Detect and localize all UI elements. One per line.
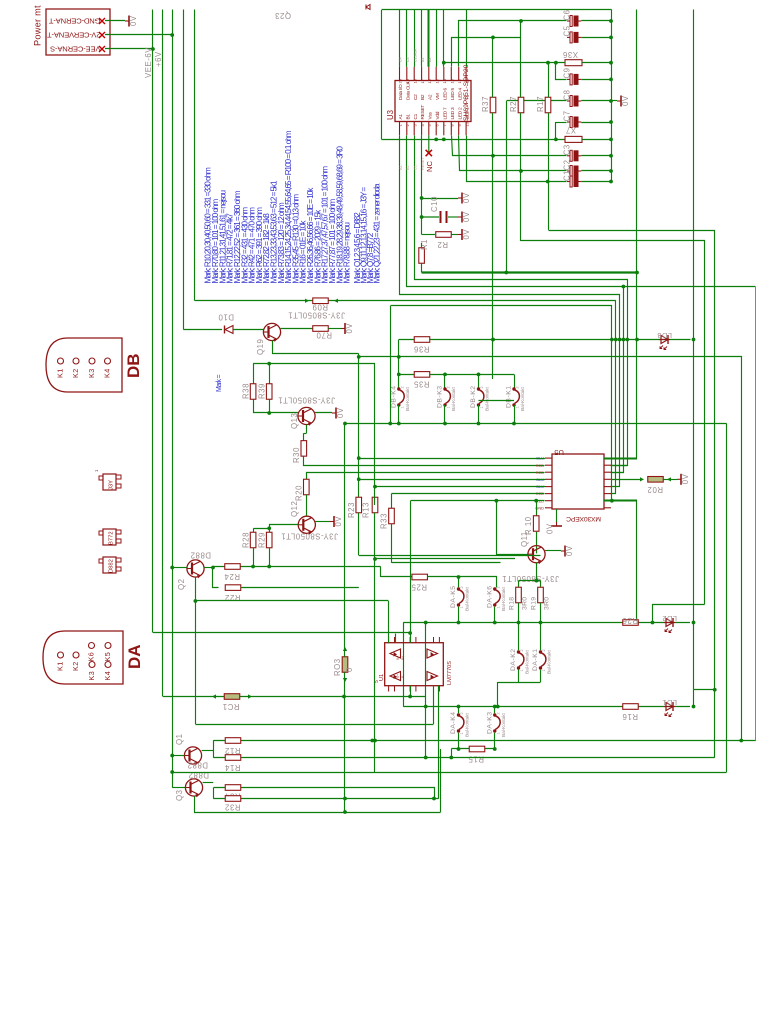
svg-text:1: 1 bbox=[447, 406, 451, 408]
svg-text:Q3: Q3 bbox=[175, 789, 184, 801]
pin DA K5 bbox=[103, 643, 112, 662]
resistor RO3 bbox=[333, 647, 354, 682]
svg-text:2: 2 bbox=[520, 649, 524, 651]
wire X7 bus bbox=[382, 138, 566, 142]
capacitor C9 bbox=[563, 67, 582, 84]
wire bbox=[536, 501, 538, 517]
wire bbox=[395, 634, 397, 643]
svg-text:Q19: Q19 bbox=[256, 339, 265, 355]
svg-text:R23: R23 bbox=[347, 502, 356, 518]
resistor R24 bbox=[224, 564, 240, 581]
wire R32 net bbox=[213, 797, 438, 801]
svg-text:Mark: R78,88 = nejsou: Mark: R78,88 = nejsou bbox=[343, 222, 352, 284]
svg-text:2: 2 bbox=[542, 649, 546, 651]
wire bbox=[478, 405, 480, 424]
wire bbox=[545, 550, 561, 552]
wire R24 line bbox=[213, 565, 381, 569]
switch DA-K1 bbox=[532, 648, 553, 674]
transistor Q11 bbox=[502, 531, 559, 583]
svg-text:DA-K5: DA-K5 bbox=[450, 585, 457, 608]
resistor R15 bbox=[468, 746, 485, 763]
wire bbox=[183, 10, 185, 330]
wire bbox=[421, 10, 423, 67]
wire bbox=[399, 10, 401, 67]
wire bbox=[636, 10, 638, 459]
svg-text:DA-K6: DA-K6 bbox=[486, 585, 493, 608]
wire bbox=[410, 686, 412, 697]
switch DB-K2 bbox=[470, 385, 491, 411]
wire bbox=[304, 425, 307, 441]
wire bbox=[410, 633, 412, 643]
svg-text:K2: K2 bbox=[71, 661, 80, 671]
svg-text:2: 2 bbox=[447, 386, 451, 388]
svg-text:LM7770S: LM7770S bbox=[447, 661, 453, 685]
svg-text:R26: R26 bbox=[622, 616, 638, 625]
wire bbox=[172, 567, 187, 569]
wire bbox=[519, 603, 541, 623]
wire Q19 emitter bbox=[273, 341, 359, 354]
wire bbox=[459, 733, 495, 749]
transistor pkg D882 bbox=[99, 557, 121, 573]
svg-text:RED: RED bbox=[536, 463, 544, 468]
wire bbox=[433, 686, 435, 724]
wire bbox=[548, 63, 550, 230]
svg-text:R39: R39 bbox=[258, 383, 267, 399]
node RESET bbox=[421, 157, 425, 170]
wire bbox=[440, 749, 442, 812]
svg-text:Bal-Kontakt: Bal-Kontakt bbox=[451, 387, 457, 411]
svg-text:VM: VM bbox=[435, 93, 441, 100]
resistor R1 bbox=[419, 239, 429, 263]
wire bbox=[444, 405, 446, 424]
resistor R30 bbox=[292, 441, 307, 463]
wire bbox=[315, 521, 330, 523]
switch DB-K3 bbox=[437, 385, 458, 411]
capacitor C5 bbox=[563, 25, 582, 43]
wire bbox=[436, 10, 438, 67]
svg-text:Q13: Q13 bbox=[290, 413, 299, 429]
wire bbox=[519, 623, 541, 651]
transistor pkg B772 bbox=[99, 529, 121, 545]
wire bbox=[202, 750, 214, 752]
note Mark table bbox=[204, 130, 382, 283]
resistor R23 bbox=[347, 497, 362, 518]
svg-text:R35: R35 bbox=[413, 380, 429, 389]
svg-text:0: 0 bbox=[345, 667, 354, 672]
svg-text:A2: A2 bbox=[427, 94, 433, 100]
wire bbox=[424, 623, 428, 758]
wire bbox=[611, 465, 627, 467]
svg-text:13: 13 bbox=[450, 78, 455, 83]
svg-text:Bal-Kontakt: Bal-Kontakt bbox=[520, 387, 526, 411]
resistor R12 bbox=[225, 738, 241, 755]
svg-text:R09: R09 bbox=[312, 303, 328, 312]
svg-text:Bal-Kontakt: Bal-Kontakt bbox=[405, 387, 411, 411]
svg-text:R70: R70 bbox=[316, 331, 332, 340]
wire bbox=[344, 424, 346, 813]
resistor R22 bbox=[225, 585, 241, 602]
wire bbox=[556, 63, 567, 80]
svg-text:U5: U5 bbox=[554, 448, 564, 457]
svg-text:3R0: 3R0 bbox=[544, 597, 551, 610]
wire bbox=[411, 499, 545, 503]
wire bbox=[415, 136, 628, 466]
transistor Q2 bbox=[177, 551, 211, 591]
capacitor C10 bbox=[422, 196, 458, 223]
wire bbox=[467, 136, 567, 184]
svg-text:R24: R24 bbox=[224, 572, 240, 581]
pin GND-CERNA-T bbox=[99, 18, 105, 24]
wire bbox=[604, 501, 639, 625]
svg-text:17: 17 bbox=[420, 78, 425, 83]
node C10A3A bbox=[413, 48, 417, 62]
svg-text:2: 2 bbox=[496, 712, 500, 714]
wire bbox=[392, 493, 545, 495]
wire bbox=[403, 623, 405, 707]
ground 0V bbox=[546, 509, 563, 534]
wire bbox=[459, 607, 495, 623]
svg-text:C2: C2 bbox=[413, 94, 419, 100]
pin DA K6 bbox=[87, 643, 96, 662]
svg-text:1: 1 bbox=[516, 406, 520, 408]
svg-text:J3Y-S8050LT1: J3Y-S8050LT1 bbox=[502, 574, 559, 583]
svg-text:1: 1 bbox=[400, 406, 404, 408]
wire bbox=[374, 513, 376, 772]
svg-text:1: 1 bbox=[496, 606, 500, 608]
svg-text:LED 6: LED 6 bbox=[442, 88, 448, 100]
LED LD3 bbox=[657, 331, 672, 350]
svg-text:R16: R16 bbox=[622, 712, 638, 721]
connector X36 bbox=[562, 50, 582, 66]
capacitor C8 bbox=[563, 89, 582, 106]
pin DB K4 bbox=[103, 358, 112, 378]
transistor Q19 bbox=[256, 311, 345, 356]
svg-text:LED 1: LED 1 bbox=[465, 107, 471, 119]
node A3 bbox=[428, 58, 432, 62]
wire bbox=[452, 36, 521, 67]
svg-text:V+: V+ bbox=[396, 656, 400, 660]
svg-text:Vdd: Vdd bbox=[435, 111, 441, 119]
switch DB-K4 bbox=[390, 385, 411, 411]
resistor R25 bbox=[411, 574, 428, 591]
transistor Q1 bbox=[175, 733, 208, 769]
svg-text:DB-K4: DB-K4 bbox=[390, 385, 397, 408]
svg-text:X7: X7 bbox=[565, 126, 576, 135]
svg-text:DB-K1: DB-K1 bbox=[506, 385, 513, 408]
svg-text:0V: 0V bbox=[681, 473, 690, 484]
wire bbox=[315, 412, 332, 414]
svg-text:K6: K6 bbox=[87, 652, 96, 662]
connector X7 bbox=[565, 126, 582, 143]
wire R34 net bbox=[214, 788, 436, 801]
resistor R70 bbox=[313, 326, 332, 340]
svg-text:LED 7: LED 7 bbox=[442, 107, 448, 119]
svg-text:LED 4: LED 4 bbox=[457, 88, 463, 100]
svg-text:2: 2 bbox=[460, 586, 464, 588]
pin 2V-CERVENA-T bbox=[99, 32, 105, 38]
svg-text:2: 2 bbox=[460, 712, 464, 714]
pin NC bbox=[425, 135, 434, 172]
svg-text:C6: C6 bbox=[563, 9, 572, 20]
svg-text:R18: R18 bbox=[509, 597, 516, 610]
wire bbox=[491, 37, 495, 379]
svg-text:T1: T1 bbox=[465, 94, 471, 100]
svg-text:1: 1 bbox=[496, 732, 500, 734]
svg-text:K3: K3 bbox=[87, 368, 96, 378]
svg-text:Q23: Q23 bbox=[275, 11, 291, 20]
net VEE-6V bbox=[144, 10, 153, 633]
wire bbox=[755, 287, 757, 741]
svg-text:Bal-Kontakt: Bal-Kontakt bbox=[501, 713, 507, 737]
resistor R38 bbox=[242, 383, 256, 399]
svg-text:R38: R38 bbox=[242, 383, 251, 399]
pin DA K3 bbox=[87, 662, 96, 681]
wire bbox=[519, 581, 541, 588]
wire bbox=[254, 528, 270, 532]
pin DB K2 bbox=[71, 358, 80, 378]
pin DA K1 bbox=[56, 652, 65, 671]
wire bbox=[549, 231, 717, 758]
wire bbox=[233, 329, 263, 331]
IC U5 MX30XEPC bbox=[535, 448, 611, 522]
svg-text:C2: C2 bbox=[563, 159, 572, 170]
svg-text:D882: D882 bbox=[188, 771, 209, 780]
svg-text:Bal-Kontakt: Bal-Kontakt bbox=[485, 387, 491, 411]
svg-text:B1: B1 bbox=[405, 114, 411, 120]
diode D10 bbox=[218, 313, 234, 334]
svg-text:+6V: +6V bbox=[154, 51, 163, 67]
wire bbox=[397, 340, 401, 390]
wire LD2 net bbox=[403, 621, 690, 625]
node A1. bbox=[399, 164, 403, 170]
wire bus DBK bbox=[345, 422, 727, 426]
resistor R13 bbox=[362, 497, 378, 518]
wire bbox=[443, 10, 445, 67]
wire bbox=[388, 601, 390, 643]
svg-text:LED 5: LED 5 bbox=[450, 88, 456, 100]
svg-text:C1.: C1. bbox=[414, 164, 418, 170]
svg-text:C7: C7 bbox=[563, 110, 572, 121]
wire bbox=[581, 100, 617, 102]
wire bbox=[466, 10, 468, 67]
ground 0V bbox=[561, 545, 574, 556]
wire R14 net bbox=[213, 756, 715, 760]
svg-text:LED 3: LED 3 bbox=[450, 107, 456, 119]
wire bbox=[213, 741, 215, 758]
resistor RC1 bbox=[212, 694, 252, 711]
switch DA-K3 bbox=[486, 711, 507, 737]
wire bbox=[195, 300, 616, 302]
svg-text:V+: V+ bbox=[396, 674, 400, 678]
svg-text:A1.: A1. bbox=[399, 164, 403, 170]
ground 0V bbox=[330, 516, 343, 527]
svg-text:RED: RED bbox=[536, 470, 544, 475]
wire bbox=[663, 477, 677, 481]
resistor R32 bbox=[225, 796, 241, 812]
transistor Q12 bbox=[281, 501, 338, 541]
connector DA bbox=[43, 631, 144, 684]
pin DA K2 bbox=[71, 652, 80, 671]
wire bbox=[421, 243, 423, 273]
wire bbox=[451, 234, 458, 236]
wire bbox=[693, 690, 695, 707]
wire bbox=[253, 363, 375, 365]
svg-text:0V: 0V bbox=[334, 516, 343, 527]
capacitor C2 bbox=[563, 159, 582, 176]
svg-text:RESET: RESET bbox=[420, 105, 426, 120]
wire bbox=[514, 405, 516, 424]
svg-text:R15: R15 bbox=[468, 755, 484, 764]
svg-text:Bal-Kontakt: Bal-Kontakt bbox=[501, 587, 507, 611]
svg-text:K4: K4 bbox=[103, 368, 112, 378]
wire bbox=[521, 241, 705, 605]
wire bbox=[358, 479, 360, 497]
switch DA-K6 bbox=[486, 585, 507, 611]
svg-text:R37: R37 bbox=[481, 96, 490, 112]
svg-text:Power mt: Power mt bbox=[33, 5, 43, 46]
wire Q11 base bbox=[497, 501, 528, 555]
wire bbox=[304, 457, 545, 466]
svg-text:2: 2 bbox=[400, 386, 404, 388]
wire X36 net bbox=[442, 61, 558, 65]
capacitor C6 bbox=[563, 9, 582, 26]
svg-text:1: 1 bbox=[460, 606, 464, 608]
svg-text:V+: V+ bbox=[401, 656, 405, 660]
transistor Q13 bbox=[278, 396, 335, 430]
wire LD1 net bbox=[403, 705, 695, 709]
wire bbox=[581, 181, 611, 183]
resistor R33 bbox=[380, 508, 395, 529]
svg-text:1: 1 bbox=[480, 406, 484, 408]
connector DB bbox=[46, 338, 143, 392]
wire bbox=[692, 10, 696, 690]
wire bbox=[358, 513, 360, 555]
capacitor C3 bbox=[563, 144, 582, 161]
ground 0V bbox=[458, 229, 471, 240]
svg-text:VEE-6V: VEE-6V bbox=[144, 47, 153, 78]
svg-text:X36: X36 bbox=[562, 50, 578, 59]
wire bbox=[611, 287, 624, 473]
svg-text:R30: R30 bbox=[292, 447, 301, 463]
svg-text:B772: B772 bbox=[109, 531, 115, 545]
wire bbox=[407, 136, 756, 289]
resistor R18 bbox=[509, 587, 529, 610]
svg-text:A1: A1 bbox=[398, 114, 404, 120]
wire bbox=[344, 646, 346, 812]
wire bbox=[391, 524, 393, 563]
svg-text:C4: C4 bbox=[399, 57, 403, 62]
node B1. bbox=[406, 164, 410, 170]
wire VM rail bbox=[422, 271, 639, 275]
svg-text:C4: C4 bbox=[406, 57, 410, 62]
resistor R37 bbox=[481, 96, 496, 113]
svg-text:1: 1 bbox=[460, 732, 464, 734]
wire bbox=[458, 577, 460, 587]
wire bbox=[172, 755, 184, 757]
svg-text:R32: R32 bbox=[225, 803, 241, 812]
svg-text:Q1: Q1 bbox=[175, 733, 184, 745]
wire bbox=[194, 599, 434, 724]
note Mark2 bbox=[216, 374, 223, 392]
svg-text:DB-K2: DB-K2 bbox=[470, 385, 477, 408]
wire bbox=[204, 566, 215, 570]
wire bbox=[172, 787, 185, 789]
svg-text:J3Y-S8050LT1: J3Y-S8050LT1 bbox=[288, 311, 345, 320]
svg-text:NC: NC bbox=[425, 161, 434, 172]
wire Q12 base bbox=[254, 525, 299, 531]
wire R22 line bbox=[241, 587, 359, 589]
wire bbox=[105, 20, 125, 22]
ground 0V bbox=[458, 192, 471, 203]
wire bbox=[445, 374, 515, 389]
wire bbox=[520, 21, 522, 241]
svg-text:VEE-CERNA-S: VEE-CERNA-S bbox=[50, 44, 100, 53]
node rail3 bbox=[170, 10, 174, 788]
resistor R28 bbox=[242, 532, 256, 548]
svg-text:J3Y: J3Y bbox=[109, 480, 115, 490]
svg-text:Bal-Kontakt: Bal-Kontakt bbox=[547, 650, 553, 674]
wire bbox=[535, 563, 539, 583]
wire bbox=[410, 501, 412, 633]
resistor R26 bbox=[622, 616, 638, 625]
ground 0V bbox=[332, 407, 345, 418]
wire bbox=[496, 682, 500, 708]
resistor R16 bbox=[622, 704, 638, 721]
svg-text:1: 1 bbox=[542, 669, 546, 671]
wire bbox=[548, 62, 611, 64]
wire RC1 rail bbox=[163, 695, 426, 699]
svg-text:J3Y-S8050LT1: J3Y-S8050LT1 bbox=[281, 532, 338, 541]
resistor R19 bbox=[531, 587, 551, 610]
wire bbox=[328, 328, 341, 330]
svg-text:Data I/O: Data I/O bbox=[398, 84, 404, 100]
svg-text:0V: 0V bbox=[565, 545, 574, 556]
svg-text:K1: K1 bbox=[56, 368, 65, 378]
pin VEE-CERNA-S bbox=[99, 46, 105, 52]
wire bbox=[213, 568, 219, 588]
resistor R35 bbox=[413, 372, 429, 389]
svg-text:R36: R36 bbox=[414, 345, 430, 354]
wire bbox=[183, 329, 222, 331]
resistor R39 bbox=[258, 383, 272, 399]
wire bbox=[375, 558, 515, 560]
capacitor C7 bbox=[563, 110, 582, 127]
svg-text:0V: 0V bbox=[462, 229, 471, 240]
svg-text:LD3: LD3 bbox=[657, 331, 672, 340]
svg-text:DB: DB bbox=[124, 353, 143, 378]
LED LD1 bbox=[662, 698, 677, 717]
svg-text:R02: R02 bbox=[647, 485, 663, 494]
wire C8 net bbox=[507, 100, 567, 102]
wire bbox=[498, 670, 519, 683]
svg-text:R17: R17 bbox=[536, 96, 545, 112]
svg-text:D882: D882 bbox=[187, 761, 208, 770]
wire bbox=[172, 772, 726, 774]
wire bbox=[611, 472, 623, 474]
pin DB K1 bbox=[56, 358, 65, 378]
wire bbox=[380, 567, 382, 578]
wire bbox=[611, 301, 616, 494]
wire bbox=[428, 10, 430, 67]
wire R02 net bbox=[611, 477, 644, 481]
pin DB K3 bbox=[87, 358, 96, 378]
svg-text:A3: A3 bbox=[428, 58, 432, 62]
svg-text:3R0: 3R0 bbox=[522, 597, 529, 610]
svg-text:Mark: Q21,22,23 = 431 = zener: Mark: Q21,22,23 = 431 = zener dioda bbox=[373, 183, 382, 283]
switch DB-K1 bbox=[506, 385, 527, 411]
wire bbox=[105, 33, 174, 37]
wire bbox=[459, 136, 567, 173]
